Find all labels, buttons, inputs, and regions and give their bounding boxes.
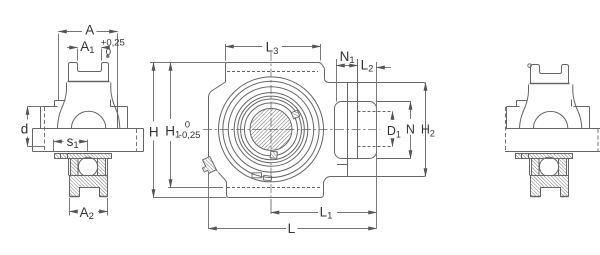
- svg-text:A1: A1: [80, 39, 94, 56]
- svg-text:N: N: [406, 123, 415, 137]
- svg-text:A: A: [85, 22, 94, 37]
- svg-text:N1: N1: [340, 49, 355, 66]
- svg-text:d: d: [21, 122, 29, 137]
- svg-text:-0,25: -0,25: [179, 130, 201, 141]
- svg-text:+0,25: +0,25: [101, 38, 125, 49]
- svg-text:L1: L1: [320, 205, 333, 222]
- svg-text:L: L: [288, 221, 296, 236]
- svg-text:D1: D1: [387, 124, 401, 140]
- svg-text:H: H: [149, 124, 159, 139]
- svg-text:L3: L3: [266, 40, 279, 57]
- svg-text:H2: H2: [421, 123, 435, 139]
- svg-text:L2: L2: [361, 57, 374, 74]
- svg-text:0: 0: [106, 47, 111, 58]
- svg-text:s1: s1: [67, 134, 79, 151]
- svg-text:A2: A2: [80, 205, 94, 222]
